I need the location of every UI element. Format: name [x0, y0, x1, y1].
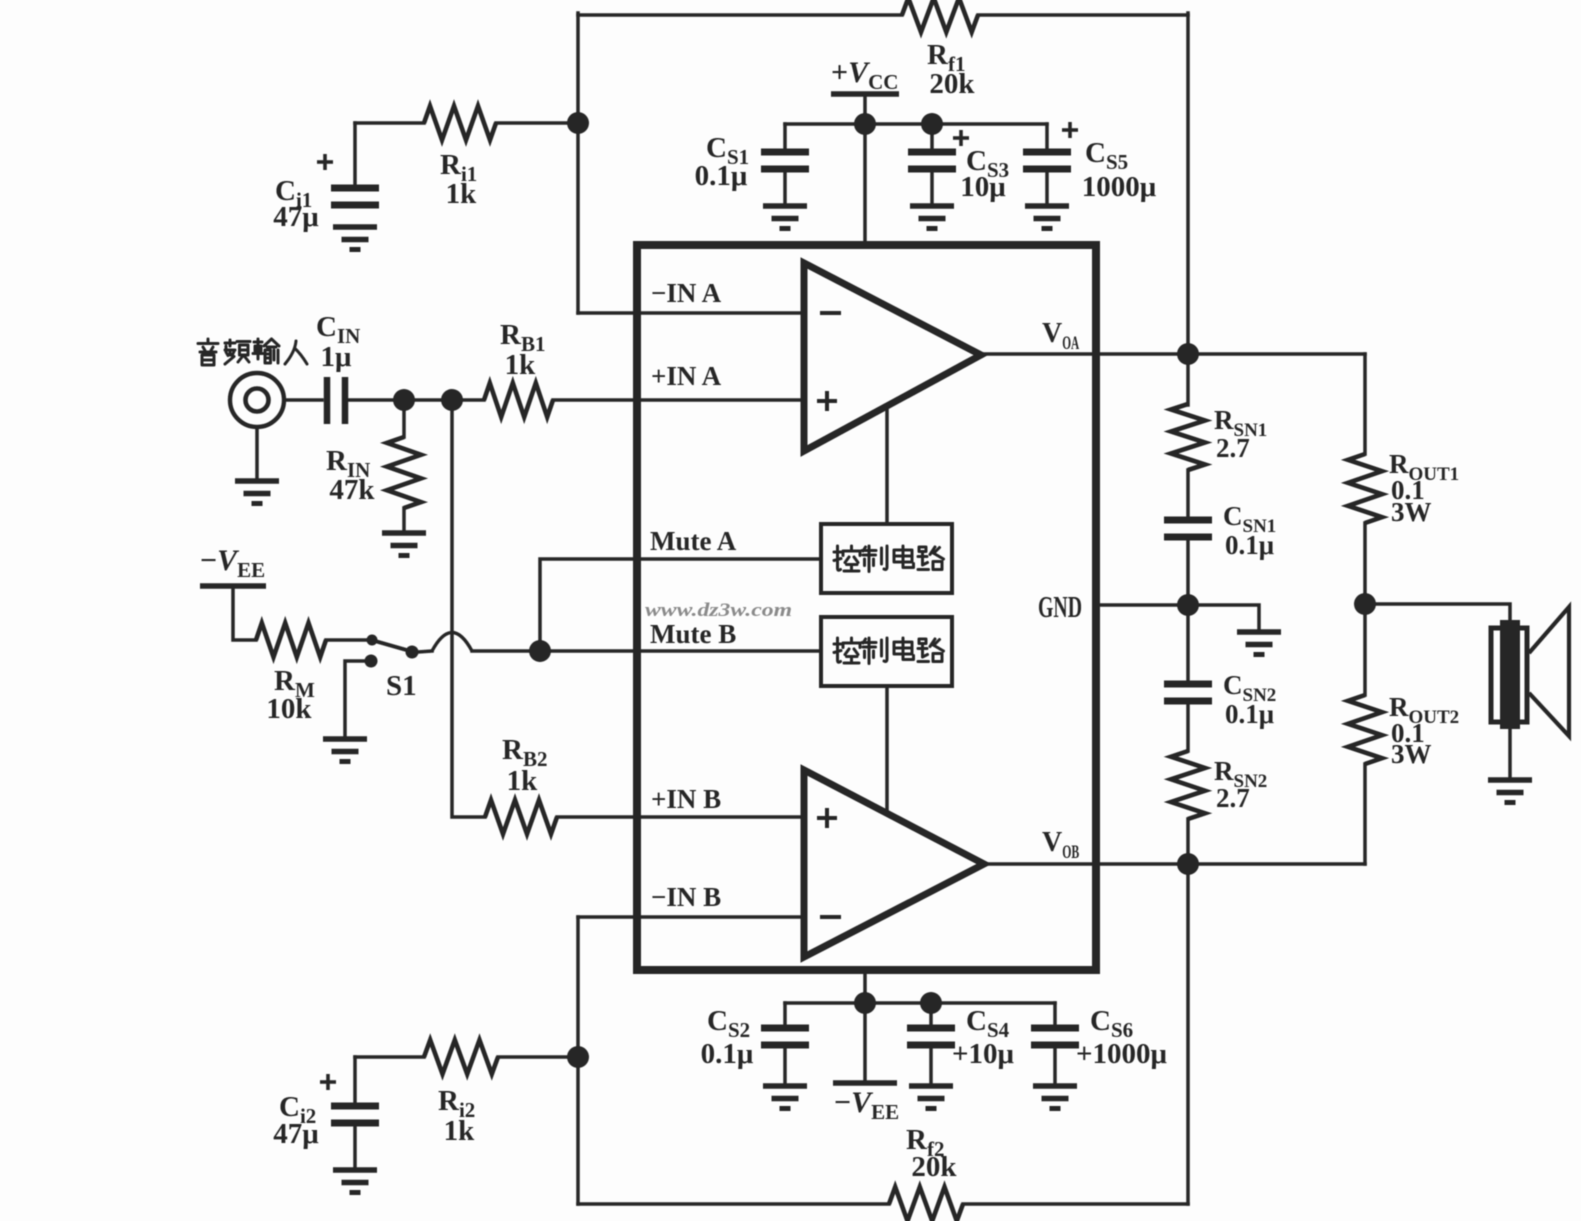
- ground below CS5: [1025, 206, 1069, 229]
- ground below CS3: [910, 206, 954, 229]
- polarity plus CS5: [1062, 122, 1078, 138]
- capacitor CS5 lower stem: [1045, 169, 1049, 206]
- capacitor CS4 lower stem: [929, 1045, 933, 1086]
- svg-text:Mute B: Mute B: [650, 619, 736, 649]
- ground below speaker: [1488, 780, 1532, 803]
- capacitor CIN (series): [327, 377, 345, 424]
- wire connector to CIN: [284, 398, 322, 402]
- svg-text:47k: 47k: [329, 474, 375, 506]
- wire RIN upper stem: [402, 400, 406, 437]
- capacitor CS1 stem: [783, 124, 787, 152]
- capacitor CS4 plates: [907, 1028, 955, 1045]
- svg-text:www.dz3w.com: www.dz3w.com: [645, 600, 792, 621]
- wire -IN A: [578, 311, 804, 315]
- svg-text:0.1μ: 0.1μ: [701, 1038, 754, 1070]
- switch S1 lower contact: [365, 655, 378, 668]
- svg-text:1k: 1k: [505, 349, 537, 381]
- wire switch to mute node: [418, 651, 432, 652]
- wire VOA to ROUT1: [1363, 354, 1367, 454]
- wire VEE to RM: [233, 586, 256, 640]
- node junction VOB: [1177, 853, 1199, 875]
- wire Ri1 to rail: [496, 121, 578, 125]
- svg-text:20k: 20k: [929, 68, 975, 100]
- resistor RSN1: [1171, 404, 1205, 470]
- svg-text:3W: 3W: [1391, 739, 1432, 769]
- wire VOA node to RSN1: [1186, 354, 1190, 405]
- wire RM to switch: [326, 638, 366, 642]
- wire GND pin: [1096, 605, 1259, 631]
- capacitor CSN2 plates: [1164, 684, 1212, 701]
- svg-text:0.1μ: 0.1μ: [695, 160, 748, 192]
- control block 1 text (Chinese: control circuit): [834, 546, 860, 571]
- wire hop over vertical: [432, 633, 472, 652]
- wire -IN B: [578, 915, 804, 919]
- wire RB2 to op-amp B: [557, 815, 804, 819]
- wire IC bottom to -VEE: [863, 970, 867, 1083]
- switch S1 throw contact: [406, 646, 419, 659]
- ground at GND pin: [1237, 632, 1281, 655]
- resistor Rf1: [902, 0, 978, 32]
- wire speaker node to ROUT2: [1363, 604, 1367, 695]
- polarity plus Ci2: [320, 1074, 336, 1090]
- ground below RIN: [382, 533, 426, 556]
- wire connector to ground: [255, 427, 259, 480]
- node junction input/RIN: [393, 389, 415, 411]
- ground below connector: [235, 481, 279, 504]
- wire right rail lower: [1186, 864, 1190, 1204]
- ground below CS2: [763, 1086, 807, 1109]
- ground below Ci1: [333, 227, 377, 250]
- resistor RB1: [484, 383, 553, 417]
- svg-text:1k: 1k: [446, 178, 478, 210]
- resistor RM: [256, 623, 326, 657]
- op-amp A minus sign: [820, 311, 841, 315]
- svg-text:+10μ: +10μ: [952, 1038, 1015, 1070]
- capacitor CS3 lower stem: [930, 169, 934, 206]
- wire top feedback rail (Rf1 net): [578, 13, 902, 17]
- capacitor Ci2 lower stem: [353, 1123, 357, 1169]
- svg-text:1μ: 1μ: [321, 341, 353, 373]
- resistor Ri2: [424, 1040, 498, 1074]
- power -VEE bar (bottom): [833, 1080, 897, 1086]
- switch S1 pole: [367, 635, 378, 646]
- capacitor CS3 stem: [930, 124, 934, 152]
- svg-text:0.1μ: 0.1μ: [1225, 699, 1274, 729]
- capacitor CS6 plates: [1031, 1028, 1079, 1045]
- resistor RIN: [387, 437, 421, 508]
- wire CSN2 to RSN2: [1186, 701, 1190, 751]
- node junction Ri1/top-rail: [567, 112, 589, 134]
- IC power amplifier box: [637, 245, 1096, 970]
- wire speaker feed: [1365, 604, 1510, 622]
- svg-text:1000μ: 1000μ: [1082, 171, 1157, 203]
- speaker driver: [1491, 620, 1527, 729]
- control block 2 text (Chinese: control circuit): [834, 638, 860, 663]
- resistor ROUT2: [1348, 695, 1382, 764]
- svg-text:+IN A: +IN A: [651, 361, 722, 391]
- svg-text:2.7: 2.7: [1216, 783, 1250, 813]
- wire bottom feedback rail right: [963, 1202, 1188, 1206]
- ground below CS1: [763, 206, 807, 229]
- op-amp B: [804, 770, 984, 957]
- power -VEE bar (left): [200, 583, 266, 589]
- svg-text:10μ: 10μ: [960, 171, 1006, 203]
- power +VCC bar: [831, 91, 899, 97]
- op-amp A: [804, 263, 981, 451]
- capacitor CS5 stem: [1045, 124, 1049, 152]
- speaker cone: [1529, 607, 1569, 736]
- capacitor Ci2 plates: [331, 1106, 379, 1123]
- wire op-amp A bias to control 1: [885, 407, 889, 524]
- control block 2 (Mute B): [821, 617, 952, 686]
- svg-text:GND: GND: [1038, 589, 1082, 624]
- resistor RB2: [485, 800, 557, 834]
- svg-text:20k: 20k: [911, 1151, 957, 1183]
- capacitor CS1 lower stem: [783, 169, 787, 206]
- capacitor Ci1 stem wire: [353, 123, 357, 188]
- wire ROUT2 to VOB: [1363, 764, 1367, 864]
- wire bottom feedback rail left: [578, 1202, 889, 1206]
- node junction VEE rail b: [920, 992, 942, 1014]
- capacitor CS2 plates: [761, 1028, 809, 1045]
- resistor Rf2: [889, 1187, 963, 1221]
- wire speaker to ground: [1508, 729, 1512, 779]
- wire RB1 to op-amp A: [553, 398, 804, 402]
- wire GND node to CSN2: [1186, 605, 1190, 684]
- ground below CS4: [909, 1086, 953, 1109]
- wire CIN to +IN A: [348, 398, 484, 402]
- node junction speaker: [1354, 593, 1376, 615]
- svg-text:47μ: 47μ: [273, 201, 319, 233]
- capacitor CS2 lower stem: [783, 1045, 787, 1086]
- wire right rail upper: [1186, 13, 1190, 354]
- capacitor CS5 plates: [1023, 152, 1071, 169]
- capacitor CS1 plates: [761, 152, 809, 169]
- wire left feedback rail upper: [576, 13, 580, 313]
- op-amp B plus sign: [817, 808, 837, 828]
- svg-text:+1000μ: +1000μ: [1076, 1038, 1168, 1070]
- svg-text:2.7: 2.7: [1216, 433, 1250, 463]
- switch S1 arm: [375, 641, 410, 651]
- svg-text:Mute A: Mute A: [650, 526, 737, 556]
- wire VOB output: [984, 862, 1365, 866]
- node junction input/RB2 drop: [441, 389, 463, 411]
- wire ROUT1 to speaker node: [1363, 523, 1367, 604]
- resistor ROUT1: [1348, 454, 1382, 523]
- wire input drop to RB2: [452, 400, 485, 817]
- wire RIN lower stem: [402, 508, 406, 532]
- wire VCC bypass rail: [785, 122, 1047, 126]
- ground below CS6: [1033, 1086, 1077, 1109]
- wire lower contact to ground: [345, 661, 367, 737]
- node junction mute A/B: [529, 640, 551, 662]
- op-amp A plus sign: [817, 391, 837, 411]
- node junction VOA: [1177, 343, 1199, 365]
- wire top feedback rail right: [978, 13, 1188, 17]
- svg-text:−IN B: −IN B: [651, 882, 721, 912]
- resistor Ri1 wire left: [355, 121, 424, 125]
- wire left feedback rail lower: [576, 917, 580, 1204]
- node junction VCC rail b: [921, 113, 943, 135]
- capacitor CS6 stem: [1053, 1003, 1057, 1028]
- svg-text:+IN B: +IN B: [651, 784, 721, 814]
- ground below S1: [323, 739, 367, 762]
- wire RSN1 to CSN1: [1186, 470, 1190, 520]
- svg-text:10k: 10k: [266, 693, 312, 725]
- resistor Ri2 wire left: [355, 1055, 424, 1059]
- wire VEE bypass rail: [785, 1001, 1055, 1005]
- svg-text:3W: 3W: [1391, 497, 1432, 527]
- capacitor CSN1 plates: [1164, 520, 1212, 537]
- wire CSN1 to GND node: [1186, 537, 1190, 605]
- node junction VCC rail a: [854, 113, 876, 135]
- label audio input (Chinese): [198, 339, 218, 365]
- svg-text:S1: S1: [386, 670, 417, 702]
- node junction VEE rail a: [854, 992, 876, 1014]
- wire Ri2 to rail: [498, 1055, 578, 1059]
- wire control 2 to op-amp B: [885, 686, 889, 812]
- wire VOA output: [981, 352, 1365, 356]
- capacitor CS6 lower stem: [1053, 1045, 1057, 1086]
- capacitor Ci1 plates: [331, 188, 379, 205]
- svg-text:1k: 1k: [444, 1115, 476, 1147]
- svg-text:0.1μ: 0.1μ: [1225, 530, 1274, 560]
- capacitor Ci2 stem wire: [353, 1057, 357, 1106]
- resistor RSN2: [1171, 751, 1205, 819]
- control block 1 (Mute A): [821, 524, 952, 593]
- wire hop to mute junction: [472, 649, 821, 653]
- svg-text:1k: 1k: [507, 765, 539, 797]
- wire VCC stem to IC: [863, 94, 867, 245]
- input connector: [230, 373, 284, 427]
- ground below Ci2: [333, 1170, 377, 1193]
- node junction GND: [1177, 594, 1199, 616]
- wire mute A riser: [540, 559, 821, 651]
- capacitor CS2 stem: [783, 1003, 787, 1028]
- polarity plus CS3: [953, 130, 969, 146]
- node junction Ri2/rail: [567, 1046, 589, 1068]
- svg-text:47μ: 47μ: [273, 1118, 319, 1150]
- op-amp B minus sign: [820, 915, 841, 919]
- wire RSN2 to VOB: [1186, 819, 1190, 864]
- capacitor CS3 plates: [908, 152, 956, 169]
- polarity plus Ci1: [317, 154, 333, 170]
- capacitor CS4 stem: [929, 1003, 933, 1028]
- svg-text:−IN A: −IN A: [651, 278, 722, 308]
- resistor Ri1: [424, 106, 496, 140]
